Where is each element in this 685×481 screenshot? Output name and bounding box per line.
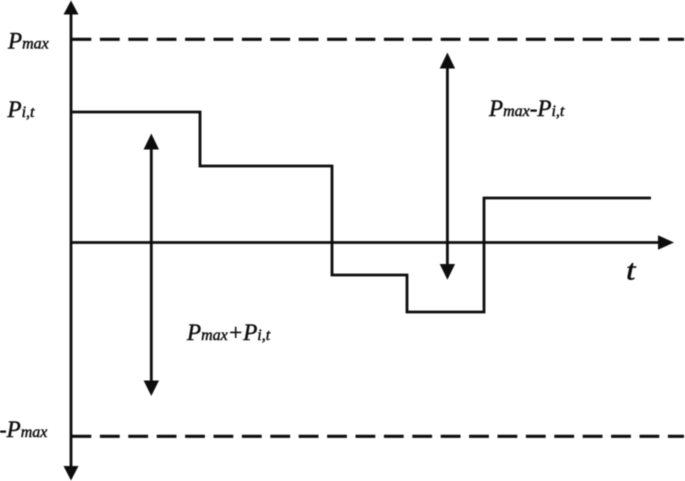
double arrow Pmax+Pi,t: [144, 134, 159, 397]
svg-text:t: t: [626, 256, 637, 287]
-Pmax dashed limit line: [72, 435, 685, 438]
Pmax dashed limit line: [72, 38, 685, 41]
t-axis (time axis, horizontal arrow): [71, 235, 674, 249]
y-axis (power axis, double-headed vertical arrow): [64, 1, 79, 481]
power step curve P_i,t: [72, 112, 651, 312]
double arrow Pmax-Pi,t: [440, 53, 455, 280]
